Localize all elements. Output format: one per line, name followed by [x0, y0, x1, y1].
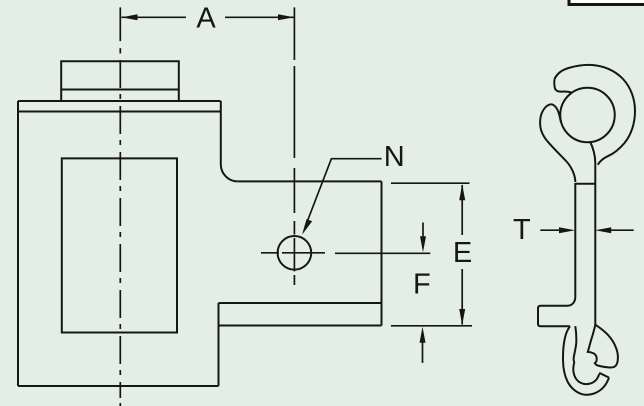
- arrow T left-pointing: [595, 227, 611, 233]
- arrow A right: [278, 14, 294, 20]
- inner window rectangle: [62, 158, 177, 332]
- side view: bar right edge: [594, 184, 596, 325]
- side view: beak with mouth wall and tooth: [588, 325, 618, 368]
- arrow E up: [459, 184, 465, 200]
- side view: stem right edge from inner void: [590, 142, 595, 185]
- F upper arrow stem: [422, 223, 424, 239]
- white box top right: [569, 0, 644, 5]
- N leader line: [306, 159, 382, 226]
- arrow F up-to-line: [420, 327, 426, 343]
- hole horizontal centerline: [261, 252, 325, 254]
- F extension line from hole: [335, 252, 430, 254]
- side view: lip outer edge and neck left side: [540, 104, 575, 182]
- hole vertical centerline: [293, 7, 295, 285]
- dimension A line: [122, 16, 295, 18]
- svg-text:A: A: [196, 3, 216, 35]
- fillet: [221, 164, 238, 181]
- svg-text:E: E: [453, 237, 472, 269]
- arrow T right-pointing: [559, 227, 575, 233]
- arm right edge: [381, 181, 383, 325]
- hole N circle: [278, 236, 312, 270]
- body left edge: [17, 101, 19, 386]
- side view: top hook inner void circle: [560, 88, 615, 143]
- F lower arrow stem: [422, 341, 424, 363]
- T right arrow stem: [610, 229, 634, 231]
- side view: top hook outer arc: [554, 65, 635, 165]
- side view: top hook end cap: [554, 79, 572, 92]
- body right upper vertical: [220, 101, 222, 164]
- top plate lower line: [18, 111, 221, 113]
- side view: bar left edge curling into bottom hook inner arc: [573, 326, 599, 384]
- side view: bottom hook end cap: [599, 373, 609, 378]
- side view: lip inner edge: [552, 104, 562, 122]
- arm top edge: [238, 180, 382, 182]
- top plate upper line: [18, 100, 221, 102]
- body bottom edge: [18, 385, 219, 387]
- E top extension line: [391, 182, 470, 184]
- arrow N leader: [302, 219, 312, 235]
- arrow F down-to-line: [420, 236, 426, 252]
- T left arrow stem: [540, 229, 560, 231]
- side view: bar left edge: [574, 183, 576, 297]
- boss divider line: [61, 89, 179, 91]
- arm bottom edge: [219, 325, 382, 327]
- E bottom extension line: [391, 325, 472, 327]
- svg-text:F: F: [413, 269, 431, 301]
- side view: protrusion: [538, 297, 575, 326]
- side view: stem joint line: [575, 183, 595, 185]
- ledge line: [219, 302, 382, 304]
- body lower-right vertical: [218, 303, 220, 386]
- side view: bottom hook outer arc: [563, 326, 609, 395]
- svg-text:N: N: [384, 141, 405, 173]
- arrow A left: [122, 14, 138, 20]
- centerline of boss (vertical dash-dot): [119, 7, 121, 406]
- svg-text:T: T: [513, 214, 531, 246]
- E dimension line: [461, 185, 463, 325]
- boss top rectangle: [61, 61, 179, 101]
- arrow E down: [459, 309, 465, 325]
